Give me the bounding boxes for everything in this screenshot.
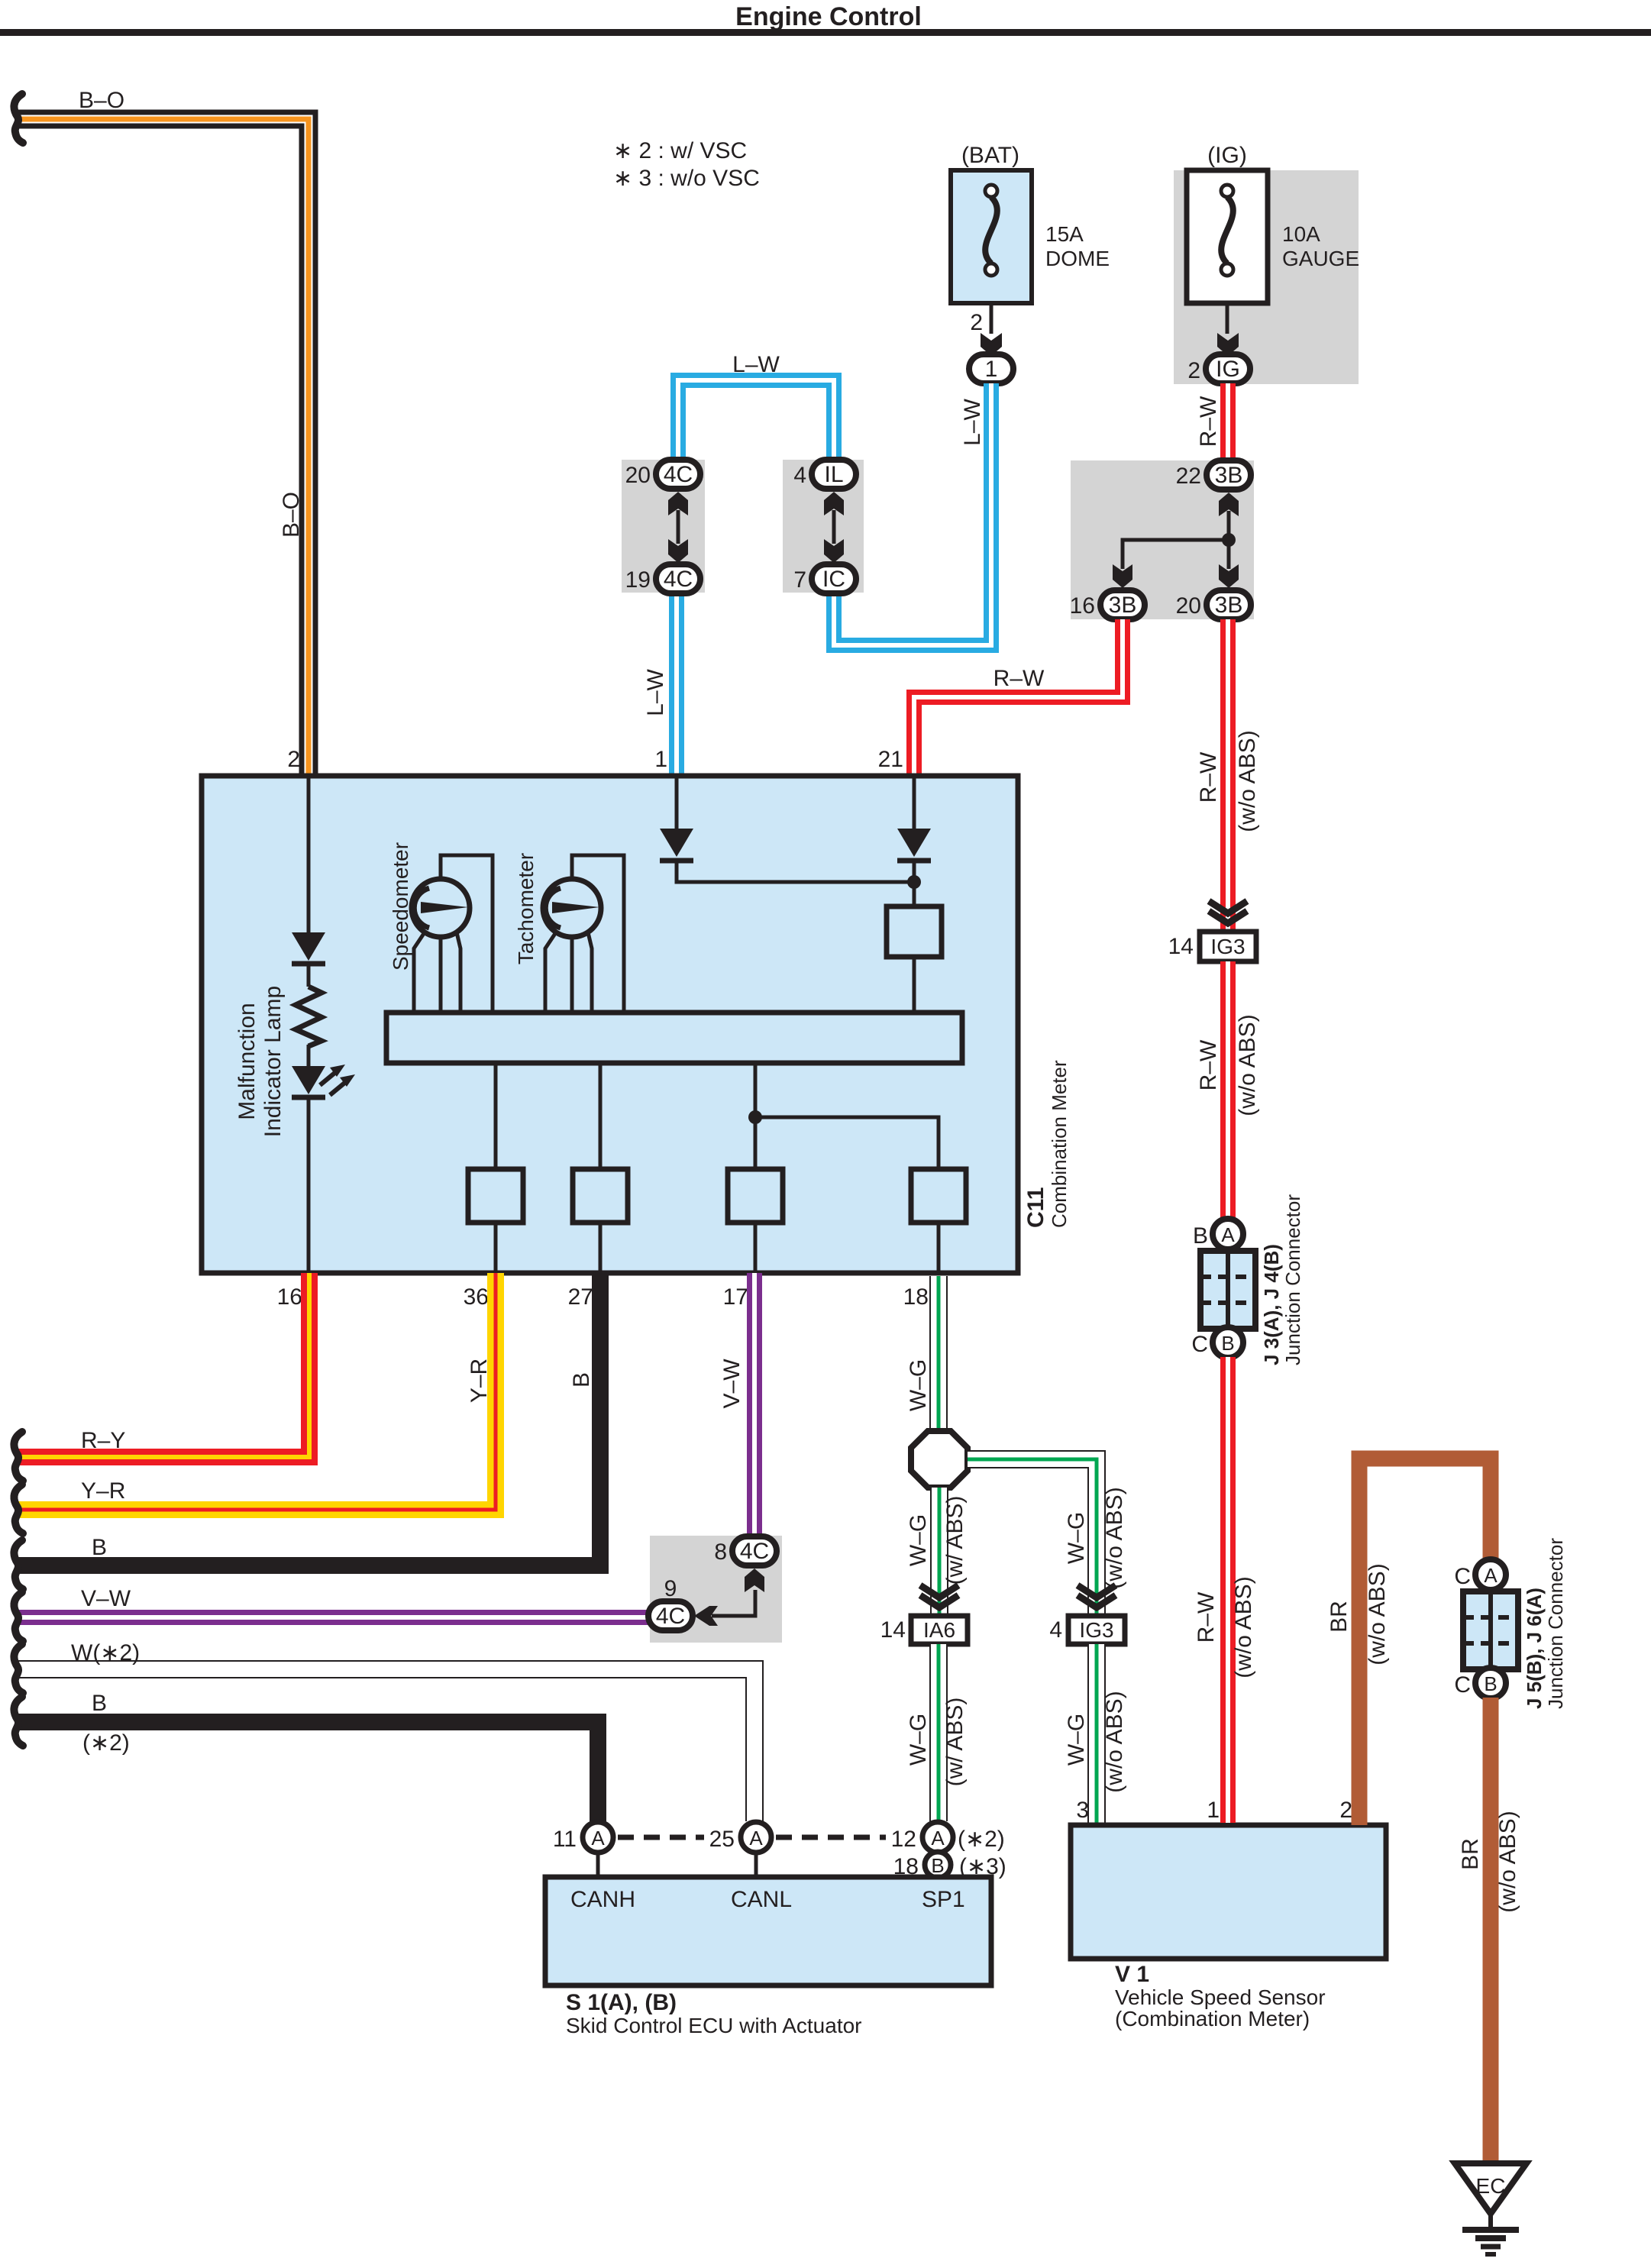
fuse 15A DOME box — [951, 170, 1032, 303]
internal wire bus to block O1 — [494, 1063, 498, 1169]
svg-text:IG3: IG3 — [1210, 935, 1245, 958]
label V 1 Vehicle Speed Sensor (Combination Meter) — [1115, 1962, 1326, 2031]
wire end curl W(*2) — [14, 1644, 23, 1693]
label W-G (w/ ABS) left branch — [906, 1496, 968, 1585]
svg-text:20: 20 — [625, 463, 651, 488]
wire from fuse GAUGE to connector oval IG — [1226, 303, 1229, 334]
svg-text:∗ 2 : w/ VSC: ∗ 2 : w/ VSC — [613, 138, 747, 163]
svg-text:B: B — [569, 1372, 594, 1388]
wire R-W (w/o ABS) from J3/J4 to speed sensor pin 1 — [1220, 1357, 1236, 1823]
svg-text:W–G: W–G — [906, 1359, 931, 1411]
meter pin label 27 — [568, 1284, 593, 1310]
arrow into oval 1 — [981, 333, 1002, 356]
svg-text:R–W: R–W — [994, 666, 1045, 691]
svg-text:L–W: L–W — [960, 398, 985, 445]
wire end curl Y-R — [14, 1485, 23, 1533]
label R-Y — [81, 1428, 125, 1453]
label C11 Combination Meter — [1023, 1060, 1071, 1228]
label BR (w/o ABS) lower — [1458, 1811, 1520, 1912]
gray panel behind IL/IC connectors — [783, 460, 864, 593]
svg-text:W–G: W–G — [906, 1514, 931, 1566]
svg-text:B–O: B–O — [279, 492, 304, 538]
svg-text:16: 16 — [277, 1284, 302, 1310]
splice arrows into IG3 (w/o ABS) — [1078, 1585, 1116, 1607]
label BR (w/o ABS) upper — [1326, 1563, 1390, 1665]
noise filter octagon — [911, 1431, 968, 1488]
label B-O vertical — [279, 492, 304, 538]
diode D1 (MIL branch) — [292, 932, 325, 964]
terminal label C (B) — [1454, 1672, 1471, 1698]
pin label 9 (4C) — [664, 1576, 677, 1601]
pin label 18 (SP1 B) — [893, 1854, 919, 1879]
svg-text:C11: C11 — [1023, 1187, 1048, 1228]
meter pin label 21 — [878, 747, 903, 772]
svg-text:2: 2 — [287, 747, 300, 772]
connector oval 20 3B — [1207, 590, 1251, 619]
connector oval 1 (DOME fuse output) — [969, 354, 1013, 383]
svg-text:(w/o ABS): (w/o ABS) — [1231, 1576, 1256, 1678]
label R-W (w/o ABS) middle — [1196, 1014, 1260, 1116]
svg-text:A: A — [1221, 1223, 1235, 1246]
wire W-G (w/o ABS) from octagon to IG3 — [968, 1459, 1097, 1614]
svg-text:1: 1 — [1207, 1798, 1220, 1823]
svg-text:Malfunction: Malfunction — [234, 1003, 260, 1119]
svg-text:B: B — [1484, 1672, 1497, 1695]
svg-text:B: B — [92, 1535, 107, 1560]
internal bus bar — [386, 1013, 962, 1063]
internal link arrow up into 22 3B — [1219, 493, 1239, 540]
svg-text:BR: BR — [1458, 1838, 1483, 1870]
connector mating arrows IL/IC pair — [824, 492, 844, 563]
label V-W horizontal — [81, 1586, 131, 1611]
pin label 20 (4C) — [625, 463, 651, 488]
svg-text:C: C — [1454, 1564, 1471, 1589]
label R-W (w/o ABS) upper — [1196, 730, 1260, 832]
svg-text:R–W: R–W — [1194, 1591, 1219, 1643]
skid control ECU box — [545, 1877, 991, 1985]
wire from fuse DOME to connector oval 1 — [990, 303, 994, 334]
svg-text:Junction Connector: Junction Connector — [1544, 1538, 1567, 1709]
meter pin label 18 — [903, 1284, 929, 1310]
connector oval 7 IC — [812, 564, 856, 593]
gray panel behind 3B connectors — [1071, 460, 1254, 619]
ground EC — [1455, 2163, 1527, 2254]
meter pin label 1 — [654, 747, 667, 772]
svg-text:V–W: V–W — [719, 1359, 745, 1409]
label W-G (w/o ABS) right branch — [1064, 1487, 1127, 1588]
connector oval 20 4C — [656, 460, 700, 489]
svg-text:4C: 4C — [664, 567, 693, 592]
label W-G vertical (pin 18) — [906, 1359, 931, 1411]
svg-text:R–Y: R–Y — [81, 1428, 125, 1453]
svg-text:11: 11 — [553, 1827, 577, 1852]
ECU terminal circle A 25 — [741, 1822, 771, 1877]
svg-text:V–W: V–W — [81, 1586, 131, 1611]
label B (*2) — [82, 1691, 130, 1756]
svg-text:2: 2 — [1187, 358, 1200, 383]
svg-text:IC: IC — [822, 567, 845, 592]
svg-text:(w/o ABS): (w/o ABS) — [1102, 1487, 1127, 1588]
junction connector J5/J6 terminal circle B — [1475, 1668, 1506, 1698]
svg-text:R–W: R–W — [1196, 751, 1221, 803]
vehicle speed sensor V1 box — [1071, 1825, 1386, 1959]
svg-text:(w/o ABS): (w/o ABS) — [1102, 1691, 1127, 1792]
wire B from meter pin 27 to left margin — [17, 1273, 600, 1565]
combination meter C11 box — [202, 776, 1018, 1273]
svg-text:3B: 3B — [1109, 593, 1137, 618]
svg-text:(w/ ABS): (w/ ABS) — [942, 1496, 968, 1585]
wire Y-R from meter pin 36 to left margin — [17, 1273, 496, 1510]
svg-text:(IG): (IG) — [1207, 143, 1247, 168]
svg-text:W(∗2): W(∗2) — [71, 1640, 140, 1665]
svg-text:GAUGE: GAUGE — [1282, 247, 1359, 270]
svg-text:S 1(A), (B): S 1(A), (B) — [566, 1990, 677, 2015]
svg-text:A: A — [591, 1827, 605, 1850]
LED malfunction indicator lamp — [292, 1065, 355, 1097]
svg-text:20: 20 — [1176, 593, 1201, 619]
svg-text:Indicator Lamp: Indicator Lamp — [260, 986, 286, 1137]
internal output block O3 — [728, 1169, 783, 1271]
svg-text:Y–R: Y–R — [467, 1359, 492, 1403]
splice arrows into IG3 (R-W) — [1209, 901, 1247, 923]
wire W-G (w/o ABS) from IG3 to speed sensor pin 3 — [1087, 1644, 1106, 1823]
svg-text:IA6: IA6 — [923, 1618, 955, 1642]
junction dot inside 3B group — [1222, 533, 1236, 547]
svg-text:14: 14 — [880, 1617, 906, 1643]
internal wire bus to block O2 — [599, 1063, 603, 1169]
fuse 15A DOME element symbol — [985, 185, 997, 276]
connector oval 22 3B — [1207, 460, 1251, 489]
wire end curl B-O — [14, 94, 23, 143]
ECU terminal circle A 12 — [922, 1822, 953, 1853]
svg-text:IG3: IG3 — [1079, 1618, 1113, 1642]
junction connector J5/J6 terminal circle A — [1475, 1559, 1506, 1590]
svg-text:IG: IG — [1216, 357, 1240, 382]
label 10A GAUGE — [1282, 222, 1359, 270]
shield dashes CANH to CANL — [618, 1835, 704, 1840]
pin label 19 (4C) — [625, 567, 651, 593]
label L-W vertical below oval 1 — [960, 398, 985, 445]
terminal label C — [1191, 1332, 1208, 1357]
svg-text:Engine Control: Engine Control — [735, 2, 922, 31]
splice arrows into IA6 — [920, 1585, 958, 1607]
note: *2 w/ VSC — [613, 138, 747, 163]
terminal label B — [1193, 1223, 1208, 1249]
internal link arrow down into 20 3B — [1219, 540, 1239, 588]
junction connector J5/J6 body — [1463, 1591, 1518, 1669]
label Y-R horizontal — [81, 1478, 125, 1504]
wire end curl B(*2) — [14, 1697, 23, 1746]
svg-text:J 5(B), J 6(A): J 5(B), J 6(A) — [1523, 1588, 1546, 1709]
wire W(*2) from left margin to ECU CANL — [17, 1669, 754, 1821]
label V-W vertical — [719, 1359, 745, 1409]
svg-text:4C: 4C — [656, 1604, 685, 1629]
svg-text:B: B — [1193, 1223, 1208, 1249]
wire R-W from oval IG down to connector 22 3B — [1220, 383, 1236, 460]
svg-text:B: B — [1221, 1332, 1234, 1355]
svg-text:4: 4 — [793, 463, 806, 488]
internal wire from meter pin 21 — [913, 776, 916, 829]
wire BR (w/o ABS) from J5/J6 to ground EC — [1483, 1698, 1499, 2164]
label Malfunction Indicator Lamp — [234, 986, 286, 1137]
pin label 2 (GAUGE fuse) — [1187, 358, 1200, 383]
svg-text:Vehicle Speed Sensor: Vehicle Speed Sensor — [1115, 1985, 1326, 2009]
internal output block O1 — [468, 1169, 523, 1271]
pin label 16 (3B) — [1070, 593, 1095, 619]
connector oval 4 IL — [812, 460, 856, 489]
svg-text:Y–R: Y–R — [81, 1478, 125, 1504]
svg-text:A: A — [1484, 1564, 1498, 1587]
internal output block O2 — [573, 1169, 628, 1271]
svg-text:8: 8 — [714, 1539, 727, 1565]
terminal label C (A) — [1454, 1564, 1471, 1589]
wire B(*2) from left margin to ECU CANH — [17, 1722, 598, 1821]
label L-W above loop — [732, 352, 780, 377]
internal link line to 16 3B — [1123, 540, 1229, 569]
label J 5(B), J 6(A) Junction Connector — [1523, 1538, 1567, 1709]
note: *3 w/o VSC — [613, 166, 760, 191]
svg-text:(w/ ABS): (w/ ABS) — [942, 1698, 968, 1787]
connector oval 8 4C — [732, 1536, 777, 1565]
gray panel behind 4C connectors 8/9 — [650, 1536, 782, 1643]
connector oval 16 3B — [1100, 590, 1145, 619]
svg-text:A: A — [749, 1827, 763, 1850]
tachometer gauge — [543, 855, 624, 1013]
label R-W horizontal — [994, 666, 1045, 691]
gray panel behind IG fuse — [1174, 170, 1359, 384]
label (*3) — [959, 1854, 1006, 1879]
svg-text:(∗2): (∗2) — [958, 1827, 1005, 1852]
label J 3(A), J 4(B) Junction Connector — [1260, 1194, 1304, 1365]
svg-text:L–W: L–W — [643, 668, 668, 716]
label Tachometer — [514, 853, 538, 964]
svg-text:21: 21 — [878, 747, 903, 772]
svg-text:27: 27 — [568, 1284, 593, 1310]
svg-text:14: 14 — [1168, 934, 1194, 959]
junction connector J3/J4 terminal circle A — [1213, 1219, 1243, 1249]
title: Engine Control — [0, 2, 1651, 36]
wire L-W loop from connector 20 4C up over to connector IL — [678, 380, 834, 460]
svg-text:25: 25 — [709, 1827, 735, 1852]
svg-text:22: 22 — [1176, 464, 1201, 489]
diode D3 (pin 21 branch) — [897, 829, 931, 861]
svg-text:(w/o ABS): (w/o ABS) — [1235, 1014, 1260, 1116]
svg-text:4C: 4C — [740, 1539, 769, 1564]
pin label 14 (IA6) — [880, 1617, 906, 1643]
diode D2 (pin 1 branch) — [660, 829, 693, 861]
svg-text:B: B — [931, 1854, 944, 1877]
wire end curl R-Y — [14, 1432, 23, 1481]
pin label 4 (IL) — [793, 463, 806, 488]
svg-text:B: B — [92, 1691, 107, 1716]
V1 pin label 3 — [1076, 1798, 1089, 1823]
shield dashes CANL to SP1 — [776, 1835, 886, 1840]
svg-text:12: 12 — [891, 1827, 916, 1852]
fuse 10A GAUGE box — [1187, 170, 1268, 303]
label (IG) — [1207, 143, 1247, 168]
label R-W vertical (IG to 3B) — [1196, 396, 1221, 447]
wire R-Y from meter pin 16 to left margin — [17, 1273, 309, 1457]
pin label 7 (IC) — [793, 567, 806, 593]
label (*2) — [958, 1827, 1005, 1852]
svg-text:Speedometer: Speedometer — [389, 842, 412, 971]
svg-text:4: 4 — [1049, 1617, 1062, 1643]
pin label 4 (IG3) — [1049, 1617, 1062, 1643]
label B-O horizontal — [79, 88, 124, 113]
svg-text:B–O: B–O — [79, 88, 124, 113]
resistor (MIL branch) — [296, 987, 321, 1046]
label 15A DOME — [1045, 222, 1110, 270]
wire V-W from meter pin 17 to connector 8 4C — [747, 1273, 762, 1536]
V1 pin label 2 — [1339, 1798, 1352, 1823]
internal link arrow down into 16 3B — [1113, 564, 1132, 588]
label L-W vertical above meter pin 1 — [643, 668, 668, 716]
wire W-G (w/ ABS) from octagon to IA6 — [930, 1488, 948, 1614]
label R-W (w/o ABS) lower — [1194, 1576, 1256, 1678]
svg-text:(w/o ABS): (w/o ABS) — [1235, 730, 1260, 832]
connector oval IG (GAUGE fuse output) — [1206, 354, 1250, 383]
svg-text:19: 19 — [625, 567, 651, 593]
meter pin label 2 — [287, 747, 300, 772]
connector IG3 (R-W line) — [1200, 932, 1256, 961]
connector IG3 (w/o ABS) — [1068, 1616, 1125, 1644]
internal wire bus to block O3 with junction to O4 — [748, 1063, 939, 1169]
meter pin label 36 — [464, 1284, 489, 1310]
junction dot on pin 21 branch — [907, 863, 921, 906]
label S 1(A), (B) Skid Control ECU with Actuator — [566, 1990, 862, 2037]
svg-text:A: A — [931, 1827, 945, 1850]
svg-text:1: 1 — [654, 747, 667, 772]
internal block U1 (power circuit) — [887, 906, 942, 1013]
svg-text:DOME: DOME — [1045, 247, 1110, 270]
connector oval 9 4C — [648, 1601, 693, 1630]
connector oval 19 4C — [656, 564, 700, 593]
wire R-W (w/o ABS) from connector 20 3B to IG3 — [1220, 619, 1236, 932]
fuse 10A GAUGE element symbol — [1221, 185, 1233, 276]
junction connector J3/J4 body — [1200, 1251, 1255, 1329]
svg-text:15A: 15A — [1045, 222, 1084, 246]
wire L-W from connector 19 4C down to combination meter pin 1 — [669, 593, 684, 774]
svg-text:1: 1 — [985, 357, 998, 382]
wire end curl V-W — [14, 1592, 23, 1641]
junction connector J3/J4 terminal circle B — [1213, 1327, 1243, 1358]
label W(*2) — [71, 1640, 140, 1665]
svg-text:18: 18 — [903, 1284, 929, 1310]
label (BAT) — [961, 143, 1019, 168]
wire B-O from left margin to combination meter pin 2 — [17, 119, 309, 774]
V1 pin label 1 — [1207, 1798, 1220, 1823]
svg-text:4C: 4C — [664, 462, 693, 487]
label B horizontal — [92, 1535, 107, 1560]
svg-text:BR: BR — [1326, 1601, 1352, 1633]
label B vertical — [569, 1372, 594, 1388]
svg-text:(w/o ABS): (w/o ABS) — [1495, 1811, 1520, 1912]
meter pin label 17 — [723, 1284, 748, 1310]
label W-G (w/o ABS) below IG3 — [1064, 1691, 1127, 1792]
gray panel behind 4C connectors 20/19 — [622, 460, 705, 593]
svg-text:17: 17 — [723, 1284, 748, 1310]
connector mating arrows 4C pair — [668, 492, 688, 563]
wire R-W (w/o ABS) from IG3 to junction connector J3/J4 — [1220, 961, 1236, 1220]
wire BR (w/o ABS) from speed sensor pin 2 to junction connector J5/J6 — [1359, 1459, 1491, 1825]
wire L-W from oval 1 down-left-up to connector IC — [834, 383, 991, 645]
malfunction indicator lamp circuit wire — [307, 776, 311, 1271]
svg-text:C: C — [1454, 1672, 1471, 1698]
svg-text:3B: 3B — [1215, 593, 1243, 618]
pin label 2 (DOME fuse) — [970, 310, 983, 335]
wire V-W from left margin to connector 9 4C — [17, 1610, 649, 1625]
svg-text:CANL: CANL — [731, 1887, 792, 1912]
pin label 11 — [553, 1827, 577, 1852]
arrow into oval IG — [1217, 333, 1239, 356]
wire R-W from connector 16 3B to combination meter pin 21 — [914, 619, 1123, 774]
svg-text:2: 2 — [1339, 1798, 1352, 1823]
svg-text:16: 16 — [1070, 593, 1095, 619]
svg-text:J 3(A), J 4(B): J 3(A), J 4(B) — [1260, 1244, 1283, 1365]
svg-text:36: 36 — [464, 1284, 489, 1310]
svg-text:Tachometer: Tachometer — [514, 853, 538, 964]
svg-text:10A: 10A — [1282, 222, 1320, 246]
ECU terminal circle A 11 — [583, 1822, 613, 1877]
svg-text:(Combination Meter): (Combination Meter) — [1115, 2007, 1310, 2031]
internal output block O4 — [911, 1169, 966, 1271]
svg-text:3: 3 — [1076, 1798, 1089, 1823]
svg-text:2: 2 — [970, 310, 983, 335]
label W-G (w/ ABS) below IA6 — [906, 1698, 968, 1787]
svg-text:R–W: R–W — [1196, 1039, 1221, 1090]
pin label 20 (3B) — [1176, 593, 1201, 619]
svg-text:V 1: V 1 — [1115, 1962, 1149, 1987]
svg-text:∗ 3 : w/o VSC: ∗ 3 : w/o VSC — [613, 166, 760, 191]
svg-text:C: C — [1191, 1332, 1208, 1357]
svg-text:Junction Connector: Junction Connector — [1281, 1194, 1304, 1365]
svg-text:W–G: W–G — [906, 1714, 931, 1766]
connector IA6 — [911, 1616, 968, 1644]
pin label 8 (4C) — [714, 1539, 727, 1565]
wire end curl B — [14, 1540, 23, 1589]
svg-text:W–G: W–G — [1064, 1512, 1089, 1564]
wire from D2 to junction on pin 21 branch — [677, 863, 914, 882]
pin label 25 — [709, 1827, 735, 1852]
svg-text:(BAT): (BAT) — [961, 143, 1019, 168]
meter pin label 16 — [277, 1284, 302, 1310]
connector mating arrows 9 4C to 8 4C — [694, 1569, 764, 1626]
svg-text:W–G: W–G — [1064, 1714, 1089, 1766]
svg-text:Skid Control ECU with Actuator: Skid Control ECU with Actuator — [566, 2014, 862, 2037]
speedometer gauge — [412, 855, 493, 1013]
svg-text:(∗2): (∗2) — [82, 1730, 130, 1756]
label Speedometer — [389, 842, 412, 971]
pin label 22 (3B) — [1176, 464, 1201, 489]
wire W-G from meter pin 18 to noise filter — [929, 1276, 948, 1433]
svg-text:7: 7 — [793, 567, 806, 593]
svg-text:L–W: L–W — [732, 352, 780, 377]
svg-text:CANH: CANH — [570, 1887, 635, 1912]
svg-text:EC: EC — [1476, 2174, 1506, 2198]
svg-text:R–W: R–W — [1196, 396, 1221, 447]
pin label 12 — [891, 1827, 916, 1852]
svg-text:Combination Meter: Combination Meter — [1048, 1060, 1071, 1228]
svg-text:IL: IL — [824, 462, 843, 487]
wire W-G (w/ ABS) from IA6 to ECU SP1 A — [929, 1644, 948, 1821]
ECU terminal circle B 18 — [925, 1852, 951, 1878]
svg-text:3B: 3B — [1215, 463, 1243, 488]
svg-text:SP1: SP1 — [922, 1887, 965, 1912]
internal wire from meter pin 1 — [675, 776, 679, 829]
pin label 14 (IG3) — [1168, 934, 1194, 959]
svg-text:(w/o ABS): (w/o ABS) — [1365, 1563, 1390, 1665]
label Y-R vertical — [467, 1359, 492, 1403]
